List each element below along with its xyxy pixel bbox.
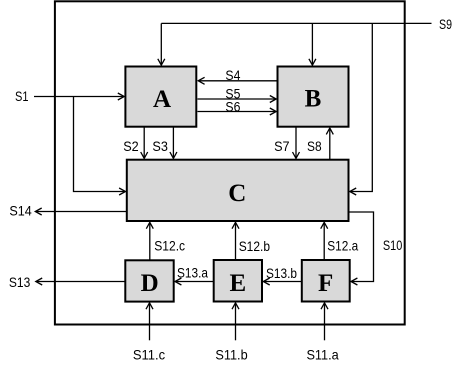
svg-text:S6: S6: [225, 99, 240, 114]
svg-text:S3: S3: [152, 139, 168, 154]
svg-text:E: E: [229, 270, 246, 297]
svg-text:S8: S8: [307, 139, 322, 154]
svg-text:D: D: [141, 270, 159, 297]
svg-text:S2: S2: [123, 139, 139, 154]
svg-text:S11.c: S11.c: [133, 348, 165, 363]
svg-text:S13: S13: [9, 275, 31, 290]
svg-text:B: B: [305, 86, 322, 113]
svg-text:C: C: [228, 180, 246, 207]
svg-text:S11.a: S11.a: [306, 348, 339, 363]
svg-text:S12.a: S12.a: [327, 239, 358, 254]
svg-text:S14: S14: [9, 204, 32, 219]
svg-text:S11.b: S11.b: [215, 348, 248, 363]
svg-text:S7: S7: [274, 139, 290, 154]
svg-text:S10: S10: [383, 238, 403, 253]
svg-text:S9: S9: [439, 17, 452, 32]
svg-text:F: F: [318, 270, 333, 297]
svg-text:A: A: [153, 86, 171, 113]
svg-text:S13.a: S13.a: [177, 266, 208, 281]
svg-text:S1: S1: [15, 89, 29, 104]
svg-text:S12.b: S12.b: [239, 239, 271, 254]
svg-text:S12.c: S12.c: [154, 239, 185, 254]
svg-text:S13.b: S13.b: [266, 266, 297, 281]
svg-text:S4: S4: [225, 68, 240, 83]
